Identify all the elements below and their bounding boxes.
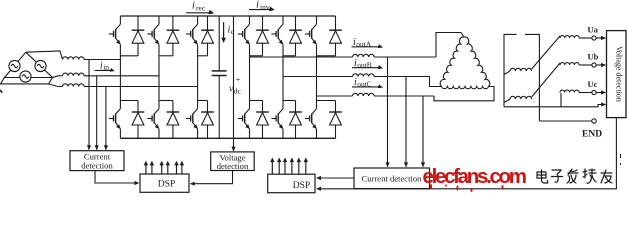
block DSP1: [140, 174, 189, 192]
wire voltage detection to DSP1: [193, 171, 232, 184]
transformer T2 core bracket left: [504, 34, 517, 106]
terminal circle Ub: [592, 63, 596, 67]
diode D7 antiparallel: [262, 16, 264, 30]
wire row b to rectifier leg 2: [84, 75, 159, 77]
wire row C continue: [374, 95, 434, 97]
svg-text:Ua: Ua: [588, 25, 599, 35]
wire output row C: [317, 95, 353, 97]
block current detection 1: [70, 151, 124, 171]
gate drive arrows DSP1 to rectifier: [145, 164, 147, 175]
wire phase c from slab corner: [49, 84, 63, 87]
winding row Ua: [560, 36, 579, 38]
terminal circle Uc: [592, 90, 596, 94]
svg-text:DSP: DSP: [158, 180, 175, 190]
wire zigzag diagonal 1: [532, 36, 560, 69]
wire phase b from right vertex: [53, 76, 63, 78]
wire current detection 2 to DSP2: [320, 177, 355, 179]
wire sense tap ic: [105, 87, 107, 150]
inductor LoutA: [353, 54, 375, 57]
positive DC rail: [120, 15, 335, 17]
IGBT Q2 (rectifier bottom leg 1): [120, 100, 138, 102]
wire DC voltage sense: [233, 16, 235, 151]
sine source Vc: [20, 71, 31, 82]
wire row c to rectifier leg 3: [84, 86, 198, 88]
svg-text:detection: detection: [81, 161, 113, 171]
diode D3 antiparallel: [172, 16, 174, 30]
node mid leg 2 inverter: [283, 55, 296, 57]
inductor La: [63, 57, 85, 60]
inductor Lb: [63, 73, 85, 76]
diode D2 antiparallel: [137, 101, 139, 113]
node mid leg 1 rectifier: [120, 55, 138, 57]
svg-text:Current detection: Current detection: [362, 174, 423, 184]
wire capacitor branch top: [218, 16, 220, 71]
block current detection 2: [354, 168, 430, 189]
wire row A up-over to delta apex: [436, 33, 464, 58]
svg-text:dc: dc: [234, 86, 242, 95]
svg-text:+: +: [236, 75, 241, 84]
sine source Va: [9, 60, 20, 71]
IGBT Q1 (rectifier top leg 1): [119, 16, 121, 24]
transformer T2 secondary winding S1: [504, 71, 510, 75]
winding row Ub: [560, 63, 579, 65]
negative DC rail: [120, 137, 335, 139]
watermark drip decorations: [430, 184, 432, 189]
IGBT Q4 (rectifier bottom leg 2): [159, 100, 173, 102]
transformer T1 primary delta winding: [440, 37, 464, 87]
wire row C under to delta bottom-right: [434, 87, 494, 101]
sine source Vb: [35, 60, 46, 71]
wire bracket to END terminal: [539, 120, 591, 122]
node mid leg 3 rectifier: [198, 55, 208, 57]
wire terminal Ub to voltage detection: [596, 64, 605, 66]
arrows into current detection 1: [87, 145, 91, 150]
arrow i_c: [223, 22, 225, 39]
diode D12 antiparallel: [335, 101, 337, 113]
IGBT Q10 (inverter bottom leg 2): [283, 100, 296, 102]
terminal circle Ua: [592, 36, 596, 40]
wire row a to rectifier leg 1: [84, 59, 120, 61]
transformer T2 secondary winding S2: [504, 99, 510, 103]
watermark chinese characters: [537, 169, 612, 183]
IGBT Q3 (rectifier top leg 2): [158, 16, 160, 24]
block voltage detection (DC link): [211, 152, 255, 171]
svg-text:Uc: Uc: [588, 79, 598, 89]
wire output row B: [283, 76, 353, 78]
transformer T2 core bracket right: [525, 34, 539, 121]
wire feedback from voltage detection: [320, 118, 617, 189]
svg-text:Ub: Ub: [588, 52, 599, 62]
wire row Ua to terminal: [579, 37, 592, 39]
diode D5 antiparallel: [207, 16, 209, 30]
node mid leg 3 inverter: [317, 55, 336, 57]
wire zigzag diagonal 2: [532, 63, 560, 97]
node mid leg 2 rectifier: [159, 55, 173, 57]
three-phase AC source G1 (delta of sine sources): [5, 52, 53, 77]
wire output row A: [250, 56, 353, 58]
block voltage detection (right): [607, 31, 627, 118]
arrow into voltage detection box: [231, 147, 235, 152]
inductor Lc: [63, 84, 85, 87]
diode D9 antiparallel: [295, 16, 297, 30]
wire sense tap ioutC: [422, 96, 424, 167]
wire current detection 1 to DSP1: [95, 171, 136, 183]
left edge artifact: [0, 90, 2, 93]
wire row B continue: [374, 76, 429, 78]
IGBT Q6 (rectifier bottom leg 3): [198, 100, 208, 102]
wire bottom link to sampling: [504, 105, 606, 107]
IGBT Q9 (inverter top leg 2): [282, 16, 284, 24]
diode D10 antiparallel: [295, 101, 297, 113]
diode D11 antiparallel: [335, 16, 337, 30]
IGBT Q8 (inverter bottom leg 1): [250, 100, 263, 102]
svg-text:i: i: [256, 0, 259, 11]
diode D1 antiparallel: [137, 16, 139, 30]
diode D4 antiparallel: [172, 101, 174, 113]
wire row Uc to terminal: [579, 92, 592, 94]
gate drive arrows DSP2 to inverter: [271, 160, 273, 174]
wire sense tap ia: [88, 60, 90, 150]
wire phase a from apex: [26, 51, 63, 60]
wire terminal Uc to voltage detection: [596, 92, 605, 94]
wire sense tap ioutA: [387, 57, 389, 167]
inductor LoutC: [353, 93, 375, 96]
dash-dot border fragment bottom right: [620, 154, 622, 158]
IGBT Q11 (inverter top leg 3): [316, 16, 318, 24]
wire row B to delta bottom-left: [430, 77, 442, 87]
svg-text:elecfans.com: elecfans.com: [423, 165, 527, 188]
arrows into current detection 2: [385, 162, 389, 167]
IGBT Q12 (inverter bottom leg 3): [317, 100, 336, 102]
wire row A continue: [374, 56, 436, 58]
wire sense tap ioutB: [405, 77, 407, 167]
wire terminal Ua to voltage detection: [596, 37, 605, 39]
terminal circle END: [592, 119, 596, 123]
svg-text:rec: rec: [196, 4, 206, 13]
diode D6 antiparallel: [207, 101, 209, 113]
IGBT Q7 (inverter top leg 1): [249, 16, 251, 24]
winding row Uc: [560, 90, 579, 92]
diode D8 antiparallel: [262, 101, 264, 113]
wire stub to row 3 winding: [560, 93, 562, 107]
svg-text:detection: detection: [217, 161, 249, 171]
svg-text:i: i: [192, 1, 195, 12]
inductor LoutB: [353, 74, 375, 77]
svg-text:Voltage detection: Voltage detection: [615, 46, 624, 102]
svg-text:END: END: [582, 130, 602, 140]
IGBT Q5 (rectifier top leg 3): [197, 16, 199, 24]
block DSP2: [268, 174, 315, 193]
capacitor C1 (DC link): [212, 70, 227, 72]
wire sense tap ib: [96, 76, 98, 150]
node mid leg 1 inverter: [250, 55, 263, 57]
svg-text:DSP: DSP: [293, 181, 310, 191]
wire row Ub to terminal: [579, 64, 592, 66]
